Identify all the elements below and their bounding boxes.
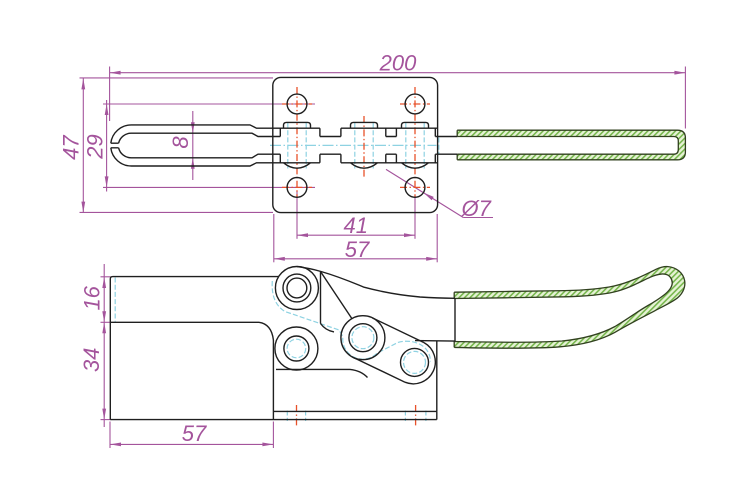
dim 47 ext bottom (80, 211, 274, 213)
side view grip fill+hatch (454, 267, 685, 349)
arrow 29 bottom (105, 176, 109, 187)
svg-text:200: 200 (379, 51, 417, 76)
svg-text:16: 16 (80, 285, 105, 310)
center axis hole/lug column left (296, 87, 298, 198)
arrow 57 side right (262, 443, 273, 447)
svg-text:29: 29 (83, 134, 108, 159)
top grip inner outline (457, 137, 678, 155)
side view: hidden pin hole circle D (404, 351, 426, 373)
dim 57 side ext right (272, 422, 274, 449)
U-bar inner slot bottom (119, 148, 458, 158)
arrow 34 top (102, 322, 106, 333)
upper arm (bar) (110, 277, 279, 323)
dim 29 ext bottom (103, 186, 315, 188)
lug 3 side walls (396, 128, 435, 163)
side grip left end caps (453, 292, 455, 347)
side view hole center marks (296, 405, 298, 428)
arrow 16 top (102, 277, 106, 288)
svg-text:Ø7: Ø7 (461, 196, 492, 221)
pivot A ring inner (287, 278, 307, 298)
lug 1 side walls (280, 128, 320, 163)
lug1 hidden hole lines (115, 123, 439, 421)
mounting plate (273, 77, 438, 212)
side view: hidden lever edge S-curve (272, 281, 430, 362)
pivot boss A outer (275, 267, 318, 310)
dim 200 ext right (684, 67, 686, 129)
lug3 hidden hole lines (405, 123, 407, 169)
lug 3 cap (402, 122, 429, 128)
svg-text:34: 34 (79, 348, 104, 372)
hidden line right of plate (438, 138, 440, 154)
side grip inner outline (454, 274, 672, 342)
arrow 8 top (outside, pointing down) (191, 122, 195, 133)
arrow 200 right (674, 71, 685, 75)
dim 29 ext top (103, 103, 315, 105)
side view: hidden U-bar at left end of upper arm (114, 278, 116, 322)
arrow 47 top (81, 78, 85, 89)
lever bottom edge near grip (415, 340, 455, 343)
hole bottom-right (405, 178, 425, 198)
link D end arc (405, 343, 435, 384)
lug 2 side walls (341, 128, 386, 163)
front link diagonal A-C (321, 272, 352, 319)
dim 200 line (110, 72, 686, 74)
dimension arrows (81, 71, 685, 447)
pivot C ring (349, 324, 377, 352)
arrow 41 right (404, 233, 415, 237)
dim 29 line (106, 100, 108, 192)
svg-text:8: 8 (168, 136, 193, 149)
pivot boss C outer (341, 316, 385, 360)
dim 34 ext bottom (101, 419, 111, 421)
side view: hidden pin hole circle B (287, 339, 306, 358)
arrow 57 top right (426, 257, 437, 261)
base block left edge (109, 322, 111, 419)
U-bar outer contour bottom (111, 148, 438, 166)
top grip left end caps (456, 130, 458, 160)
pivot A ring outer (283, 274, 311, 302)
dim 57 side line (110, 443, 273, 445)
lever top edge curve (297, 267, 455, 299)
dim 41 ext left (296, 191, 298, 239)
top view centerline (dash-dot) (270, 144, 437, 146)
upper arm bottom edge (110, 321, 259, 323)
dim 16/34 chain line (103, 264, 105, 427)
lever end at grip (454, 298, 456, 341)
link C-D upper tangent edge (372, 318, 424, 343)
lug 2 bottom arc (351, 163, 378, 168)
dim 41 line (297, 234, 415, 236)
base notch fillet (259, 322, 273, 340)
dim 16/34 ext middle (101, 321, 111, 323)
ear right edge (436, 341, 438, 411)
hole bottom-left (287, 178, 307, 198)
dim 41 ext right (414, 196, 416, 239)
hole top-left (287, 94, 307, 114)
dia7 leader (386, 169, 463, 217)
arrow 57 side left (110, 443, 121, 447)
dim 8 line (192, 111, 194, 180)
hole center horizontals bottom (282, 186, 312, 188)
hole top-right (405, 94, 425, 114)
lug2 hidden hole lines (354, 123, 356, 169)
arrow 47 bottom (81, 202, 85, 213)
pivot D ring (401, 348, 429, 376)
center axis middle lug (363, 116, 365, 177)
dim 57 top ext right (436, 214, 438, 262)
center axis hole/lug column right (414, 87, 416, 198)
arrow 8 bottom (outside, pointing up) (191, 158, 195, 169)
dim 57 side ext left (109, 422, 111, 449)
side view: hidden pin hole circle C (352, 327, 374, 349)
arrow 200 left (110, 71, 121, 75)
flange top edge (273, 410, 436, 412)
arrow 29 top (105, 104, 109, 115)
pivot boss B outer (275, 327, 318, 370)
lug 2 cap (351, 122, 378, 128)
lever left end vertical (320, 272, 322, 324)
link C-D lower tangent edge (353, 358, 405, 383)
lug 3 bottom arc (402, 163, 429, 168)
svg-text:47: 47 (59, 135, 84, 160)
arrow 16 bottom (102, 311, 106, 322)
arrow 34 bottom (102, 409, 106, 420)
pivot B ring (284, 336, 309, 361)
base bottom edge (110, 419, 437, 421)
dim 47 ext top (80, 77, 274, 79)
dim 47 line (82, 78, 84, 212)
dim 57 top line (274, 258, 437, 260)
top view grip fill+hatch (457, 130, 685, 160)
lever left end bottom fillet into boss C (321, 324, 335, 332)
svg-text:57: 57 (182, 421, 207, 446)
hole center horizontals top (282, 103, 312, 105)
svg-text:57: 57 (345, 237, 370, 262)
base flange right edge (436, 411, 438, 419)
base notch bottom edge (276, 369, 368, 377)
side grip outer outline (454, 267, 685, 349)
U-bar end faces (111, 143, 119, 148)
dim 57 top ext left (273, 214, 275, 262)
top grip outer outline (457, 130, 685, 160)
lug 1 bottom arc (284, 163, 311, 168)
side view: hidden mounting hole lines in flange (286, 411, 288, 422)
dim 16 ext top (101, 276, 111, 278)
dimension texts (59, 51, 492, 447)
arrow 41 left (297, 233, 308, 237)
lug 1 cap (284, 122, 311, 128)
arrow dia7 (423, 193, 433, 201)
arrow 57 top left (274, 257, 285, 261)
U-bar inner slot top (119, 133, 458, 143)
U-bar outer contour top (111, 125, 438, 143)
dim 200 ext left (109, 67, 111, 122)
svg-text:41: 41 (344, 213, 368, 238)
base notch right vertical (272, 340, 274, 420)
